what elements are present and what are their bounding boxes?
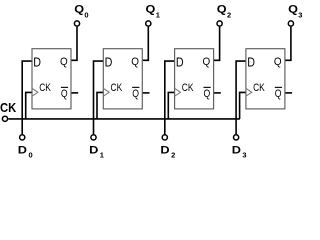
svg-text:D: D [176,56,184,70]
wire: CK bus [8,118,240,120]
wire: U2 Q output up to Q1 terminal [142,27,148,61]
svg-text:Q: Q [131,55,139,68]
D0 input terminal circle [20,135,25,140]
wire: U3 Q output up to Q2 terminal [214,27,220,61]
U4 pin label Qbar [275,87,282,100]
Q2 output terminal circle [217,21,222,26]
svg-text:Q: Q [203,55,211,68]
Q0 output label [74,2,88,19]
D flip-flop U1 box [32,49,71,109]
D2 input label [160,143,175,159]
Q1 output terminal circle [146,21,151,26]
svg-text:CK: CK [182,82,194,94]
wire: CK bus up to U3 CK input [168,92,174,119]
wire: U2 Qbar output stub [142,92,149,94]
U4 clock edge triangle [246,88,252,96]
svg-text:CK: CK [111,82,123,94]
D1 input label [89,143,104,159]
CK input terminal circle [2,116,7,121]
D3 input label [232,143,247,159]
svg-text:D: D [160,143,170,156]
wire: CK bus up to U4 CK input [240,92,246,119]
wire: D2 terminal up to U3 D input [165,61,175,134]
wire: U1 Q output up to Q0 terminal [71,27,77,61]
svg-text:Q: Q [146,2,156,15]
svg-text:CK: CK [253,82,265,94]
Q3 output label [288,2,302,19]
wire: U4 Qbar output stub [285,92,292,94]
svg-text:Q: Q [288,2,298,15]
U1 clock edge triangle [32,88,38,96]
D3 input terminal circle [234,135,239,140]
svg-text:Q: Q [132,88,139,100]
svg-text:1: 1 [156,10,160,19]
svg-text:Q: Q [274,55,282,68]
svg-text:0: 0 [29,151,33,160]
svg-text:D: D [105,56,113,70]
Q0 output terminal circle [74,21,79,26]
svg-text:CK: CK [39,82,51,94]
svg-text:D: D [18,143,28,156]
svg-text:3: 3 [298,10,302,19]
svg-text:Q: Q [217,2,227,15]
wire: U3 Qbar output stub [214,92,221,94]
svg-text:Q: Q [61,88,68,100]
svg-text:2: 2 [227,10,231,19]
svg-text:D: D [247,56,255,70]
Q2 output label [217,2,231,19]
wire: U4 Q output up to Q3 terminal [285,27,291,61]
svg-text:3: 3 [242,151,246,160]
Q3 output terminal circle [288,21,293,26]
svg-text:0: 0 [84,10,88,19]
wire: D1 terminal up to U2 D input [94,61,104,134]
D0 input label [18,143,33,159]
U3 clock edge triangle [175,88,181,96]
Q1 output label [146,2,160,19]
D flip-flop U4 box [246,49,285,109]
D flip-flop U3 box [175,49,214,109]
svg-text:1: 1 [100,151,104,160]
D flip-flop U2 box [103,49,142,109]
svg-text:Q: Q [275,88,282,100]
wire: D0 terminal up to U1 D input [22,61,32,134]
U2 clock edge triangle [103,88,109,96]
svg-text:Q: Q [204,88,211,100]
svg-text:2: 2 [171,151,175,160]
svg-text:D: D [232,143,242,156]
svg-text:Q: Q [60,55,68,68]
wire: D3 terminal up to U4 D input [236,61,246,134]
D2 input terminal circle [162,135,167,140]
wire: U1 Qbar output stub [71,92,78,94]
wire: CK bus up to U2 CK input [97,92,103,119]
U2 pin label Qbar [132,87,139,100]
U1 pin label Qbar [61,87,68,100]
U3 pin label Qbar [204,87,211,100]
D1 input terminal circle [91,135,96,140]
svg-text:D: D [33,56,41,70]
wire: CK bus up to U1 CK input [26,92,32,119]
svg-text:Q: Q [74,2,84,15]
svg-text:CK: CK [0,100,17,115]
svg-text:D: D [89,143,99,156]
